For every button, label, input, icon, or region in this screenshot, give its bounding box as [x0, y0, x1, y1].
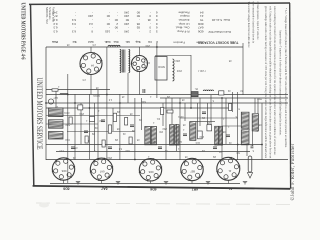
svg-text:240: 240: [124, 22, 129, 26]
svg-text:AVC: AVC: [195, 141, 200, 144]
resistor R5: [207, 125, 212, 131]
schematic border frame right: [289, 3, 292, 189]
wire row left mid B: [46, 123, 98, 125]
wire vertical left rail: [45, 47, 47, 160]
wire vertical 35: [257, 98, 259, 114]
svg-text:6B7: 6B7: [192, 187, 198, 191]
wire vertical 28: [176, 124, 178, 151]
svg-text:6.3: 6.3: [53, 29, 57, 33]
svg-text:1M: 1M: [139, 118, 142, 120]
svg-text:-: -: [150, 10, 151, 14]
i-f transformer IFT3 secondary: [219, 126, 223, 145]
svg-text:05-: 05-: [194, 87, 198, 89]
svg-text:50M: 50M: [99, 119, 104, 121]
capacitor C7: [142, 89, 144, 93]
i-f transformer IFT2 primary: [170, 125, 174, 145]
svg-text:2M: 2M: [92, 132, 95, 134]
capacitor C3: [101, 119, 105, 121]
svg-text:50M: 50M: [125, 149, 130, 151]
tube socket V3 r-f amplifier 6D6: [52, 157, 75, 180]
resistor R10: [229, 104, 232, 111]
wire vertical 25: [261, 103, 263, 160]
tube V2 oscillator: [131, 55, 148, 72]
svg-text:-: -: [109, 18, 110, 22]
svg-text:6D6: 6D6: [198, 22, 204, 26]
wire vertical 1: [55, 89, 57, 108]
wire cathode stub tube 6: [191, 180, 193, 183]
svg-text:6.3: 6.3: [53, 26, 57, 30]
wire vertical 33: [246, 145, 248, 157]
svg-text:6D6: 6D6: [150, 187, 156, 191]
svg-text:normal operation. Input 6.3 vo: normal operation. Input 6.3 volts d-c.: [256, 2, 259, 41]
svg-text:456K: 456K: [149, 140, 155, 142]
svg-text:6D6: 6D6: [198, 29, 204, 33]
condenser block C20: [191, 92, 198, 97]
ground symbol 1: [76, 182, 80, 184]
svg-text:-: -: [109, 26, 110, 30]
schematic border frame left: [31, 4, 34, 186]
wire top bus: [46, 46, 243, 48]
schematic border frame top: [29, 3, 290, 4]
i-f transformer IFT1 secondary: [151, 127, 156, 145]
svg-text:1500: 1500: [176, 69, 182, 71]
wire heater bus: [46, 144, 262, 146]
svg-text:350*: 350*: [257, 97, 262, 99]
wire vertical 29: [184, 103, 186, 121]
svg-text:©John F. Rider, Publisher: ©John F. Rider, Publisher: [290, 143, 296, 200]
wire vertical 17: [179, 98, 181, 160]
svg-text:84: 84: [200, 10, 204, 14]
wire vertical 18: [190, 55, 192, 108]
svg-text:240: 240: [124, 10, 129, 14]
svg-text:6A7: 6A7: [198, 26, 204, 30]
wire stub V1 top: [90, 47, 92, 53]
svg-text:90: 90: [106, 14, 110, 18]
svg-text:240: 240: [52, 10, 57, 14]
capacitor C11: [158, 146, 162, 148]
svg-text:-: -: [92, 26, 93, 30]
svg-text:-: -: [75, 10, 76, 14]
svg-text:-: -: [92, 18, 93, 22]
svg-text:6A7: 6A7: [101, 186, 107, 190]
svg-text:Plate: Plate: [51, 40, 58, 43]
svg-text:6.3: 6.3: [53, 18, 57, 22]
wire row bus2: [160, 97, 288, 99]
svg-text:90: 90: [106, 22, 110, 26]
svg-text:Osc.: Osc.: [113, 40, 119, 43]
wire row right mid D: [180, 117, 238, 119]
wire vertical 3: [74, 94, 76, 160]
resistor R8: [125, 118, 128, 126]
svg-text:80: 80: [136, 14, 140, 18]
svg-text:6D6: 6D6: [63, 186, 69, 190]
wire vertical 16: [171, 98, 173, 124]
wire row screen: [46, 102, 288, 104]
wire vertical 24: [254, 98, 256, 113]
ground symbol 2: [116, 182, 120, 184]
svg-text:-: -: [75, 26, 76, 30]
svg-text:2M: 2M: [213, 155, 216, 157]
wire row left mid A: [46, 115, 140, 117]
svg-text:AVC: AVC: [177, 140, 182, 143]
svg-text:MODEL 502: MODEL 502: [45, 7, 49, 24]
svg-text:-: -: [109, 10, 110, 14]
capacitor C4: [130, 124, 134, 126]
wire vertical 11: [127, 73, 129, 103]
svg-text:6D6: 6D6: [61, 169, 66, 173]
speaker field box: [155, 57, 167, 81]
svg-text:given readings taken with a me: given readings taken with a meter having…: [264, 6, 267, 159]
svg-text:OSC: OSC: [65, 138, 70, 140]
svg-text:Sup.: Sup.: [135, 40, 141, 43]
output choke L6: [241, 130, 249, 145]
capacitor C2: [84, 130, 88, 132]
svg-text:1M: 1M: [117, 110, 120, 112]
tube socket V6 2nd detector 6B7: [180, 158, 203, 181]
capacitor C10: [108, 146, 112, 148]
svg-text:SPKR: SPKR: [158, 65, 165, 68]
svg-text:The socket voltages listed in: The socket voltages listed in the table …: [247, 2, 250, 49]
svg-text:80: 80: [136, 10, 140, 14]
svg-text:165: 165: [105, 29, 110, 33]
wire vertical 10: [119, 94, 121, 160]
svg-text:50M: 50M: [65, 123, 70, 125]
wire cathode stub tube 4: [101, 180, 103, 183]
wire stub V1 bottom: [90, 75, 92, 95]
wire vertical 19: [197, 103, 199, 131]
wire vertical 20: [210, 95, 212, 126]
i-f transformer IFT1 primary: [145, 127, 151, 145]
svg-text:-: -: [92, 10, 93, 14]
svg-text:-: -: [128, 26, 129, 30]
svg-text:TUBE SOCKET VOLTAGES: TUBE SOCKET VOLTAGES: [198, 41, 239, 45]
svg-text:85: 85: [136, 26, 140, 30]
svg-text:Date: 5-11-36: Date: 5-11-36: [212, 18, 230, 22]
svg-text:25M: 25M: [107, 156, 112, 158]
svg-text:* A.C. Voltage measured from p: * A.C. Voltage measured from plate to pl…: [284, 8, 287, 148]
capacitor C1: [251, 145, 254, 147]
svg-text:41: 41: [229, 187, 233, 191]
svg-text:20M: 20M: [175, 59, 180, 61]
tube V1 rectifier 84: [80, 52, 103, 75]
svg-text:-: -: [117, 29, 118, 33]
wire vertical 26: [242, 43, 244, 95]
oscillator coil L3: [49, 132, 64, 140]
svg-text:V.: V.: [156, 40, 158, 43]
wire vertical 2: [67, 74, 69, 183]
wire row choke link: [222, 125, 241, 127]
svg-text:2M: 2M: [207, 121, 210, 123]
svg-text:6.3V: 6.3V: [59, 149, 64, 151]
wire cathode stub tube 5: [150, 180, 152, 183]
svg-text:-: -: [139, 29, 140, 33]
resistor R7: [78, 105, 83, 110]
svg-text:0.3: 0.3: [72, 22, 76, 26]
tube socket V4 oscillator-modulator 6A7: [90, 158, 113, 181]
antenna coil L1: [49, 108, 64, 117]
wire vertical 6: [94, 103, 96, 151]
svg-text:volt. Using this scale on such: volt. Using this scale on such the large…: [268, 6, 271, 158]
wire vertical 12: [134, 98, 136, 160]
ground symbol 5: [243, 182, 247, 184]
svg-text:3.2: 3.2: [89, 22, 93, 26]
svg-text:Scr.: Scr.: [72, 40, 77, 43]
wire row i-f link: [196, 121, 215, 123]
wire vertical 9: [112, 108, 114, 131]
power transformer T1 secondary winding: [129, 50, 130, 73]
svg-text:6D6: 6D6: [148, 170, 153, 174]
svg-text:240: 240: [124, 14, 129, 18]
svg-text:Rectifier: Rectifier: [178, 10, 189, 14]
svg-text:41: 41: [200, 14, 204, 18]
wire vertical 21: [221, 98, 223, 160]
wire cathode stub tube 3: [63, 180, 65, 183]
schematic border frame bottom: [33, 186, 291, 189]
filter choke L7: [252, 114, 258, 132]
svg-text:.0001: .0001: [178, 115, 184, 117]
resistor R13: [69, 117, 72, 124]
tube socket V5 i-f amplifier 6D6: [139, 158, 162, 181]
wire row mid C: [67, 131, 134, 133]
svg-text:FIELD: FIELD: [143, 61, 150, 63]
svg-text:Htr.: Htr.: [125, 40, 129, 43]
svg-text:90: 90: [114, 18, 118, 22]
svg-text:ANT: ANT: [53, 96, 58, 99]
svg-text:Function: Function: [173, 40, 185, 44]
power transformer T1 primary winding: [120, 50, 121, 73]
wire vertical 4: [80, 103, 82, 144]
wire vertical 27: [165, 98, 167, 160]
resistor R3: [108, 125, 111, 133]
wire bottom bus: [46, 159, 288, 161]
svg-text:UNITED MOTORS SERVICE: UNITED MOTORS SERVICE: [35, 78, 44, 150]
svg-text:6B7: 6B7: [190, 170, 195, 174]
ground symbol 4: [206, 182, 210, 184]
resistor R4: [198, 131, 203, 139]
i-f transformer IFT3 primary: [215, 126, 219, 145]
svg-text:Fil.: Fil.: [148, 40, 152, 43]
svg-text:1M: 1M: [202, 149, 205, 151]
svg-text:25M: 25M: [199, 135, 204, 137]
wire vertical 23: [237, 92, 239, 160]
resistor R2: [113, 113, 116, 121]
svg-text:3M: 3M: [132, 129, 135, 131]
resistor R15: [102, 140, 105, 147]
resistor R11: [167, 110, 173, 113]
svg-text:.0001: .0001: [64, 111, 70, 113]
svg-text:240: 240: [88, 14, 93, 18]
capacitor C6: [226, 134, 230, 136]
wire vertical 15: [162, 103, 164, 126]
svg-text:6A7: 6A7: [99, 170, 104, 174]
wire vertical 14: [156, 43, 158, 98]
wire row under table: [46, 89, 110, 91]
power transformer T1 core: [121, 50, 123, 73]
svg-text:UNITED MOTORS PAGE 4-6: UNITED MOTORS PAGE 4-6: [20, 3, 26, 60]
svg-text:95: 95: [136, 22, 140, 26]
wire bottom return: [50, 183, 240, 185]
svg-text:Grid: Grid: [88, 40, 94, 43]
coupling coil L4: [190, 122, 196, 141]
svg-text:were measured to chassis with: were measured to chassis with the set in: [252, 2, 255, 44]
svg-text:240: 240: [124, 29, 129, 33]
svg-text:-: -: [117, 14, 118, 18]
resistor R1: [52, 89, 58, 91]
svg-text:87: 87: [54, 14, 58, 18]
svg-text:Y 240 J: Y 240 J: [198, 69, 206, 71]
wire stub V2 top: [139, 47, 141, 56]
filter coil L10: [203, 90, 213, 91]
wire row B+: [46, 94, 288, 96]
svg-text:-: -: [117, 10, 118, 14]
wire vertical 22: [232, 92, 234, 112]
wire row grid: [46, 107, 230, 109]
svg-text:6.3: 6.3: [53, 22, 57, 26]
wire stub V2 bottom: [139, 72, 141, 95]
wire vertical 7: [97, 90, 99, 160]
wire vertical 5: [89, 94, 91, 159]
svg-text:2nd Det.: 2nd Det.: [178, 18, 190, 22]
svg-text:75: 75: [200, 18, 204, 22]
svg-text:-: -: [139, 18, 140, 22]
resistor R16: [129, 137, 132, 144]
wire cathode stub tube 7: [227, 180, 229, 183]
svg-text:GANG: GANG: [93, 94, 100, 97]
component value labels: [53, 43, 262, 158]
wire vertical 34: [252, 131, 254, 146]
table data columns: [51, 10, 158, 43]
dial lamp: [48, 99, 53, 104]
svg-text:Ampere drain--7 amperes at 6 v: Ampere drain--7 amperes at 6 volts with …: [279, 30, 282, 136]
svg-text:80: 80: [125, 18, 129, 22]
svg-text:25M: 25M: [145, 44, 150, 46]
wire speaker feed: [155, 55, 191, 57]
wire vertical 13: [141, 98, 143, 130]
svg-text:25M: 25M: [79, 112, 84, 114]
wire vertical 31: [207, 103, 209, 131]
svg-text:I-F Amp.: I-F Amp.: [178, 22, 190, 26]
ground symbol 3: [164, 182, 168, 184]
fuse F1 cigar body: [248, 156, 252, 172]
svg-text:when checking the circuits fro: when checking the circuits from the sock…: [273, 6, 276, 156]
tube socket V7 output 41: [216, 157, 240, 181]
svg-text:25M: 25M: [162, 127, 167, 129]
capacitor C9: [71, 146, 75, 148]
svg-text:Delco Model 502: Delco Model 502: [208, 30, 231, 34]
svg-text:90: 90: [114, 26, 118, 30]
svg-text:45: 45: [147, 18, 151, 22]
svg-text:2M: 2M: [202, 116, 205, 118]
i-f transformer IFT2 secondary: [175, 125, 179, 145]
capacitor C8: [202, 111, 206, 113]
svg-text:Osc.-Mod.: Osc.-Mod.: [175, 26, 189, 30]
output choke L5: [241, 112, 249, 128]
vibrator arrow: [247, 173, 252, 178]
wire vertical 32: [225, 98, 227, 144]
speaker voice coil choke: [173, 59, 175, 81]
svg-text:Cath.: Cath.: [104, 40, 111, 43]
capacitor C5: [183, 133, 187, 135]
small coil L9: [60, 94, 68, 95]
resistor R14: [85, 136, 88, 143]
resistor R9: [161, 108, 164, 115]
r-f coil L2: [49, 120, 64, 128]
svg-text:R-F Amp.: R-F Amp.: [176, 29, 189, 33]
capacitor C12: [213, 146, 217, 148]
svg-text:2M: 2M: [115, 138, 118, 140]
svg-text:50M: 50M: [141, 100, 146, 102]
page bottom edge line: [36, 203, 295, 205]
antenna input coil L8: [108, 45, 120, 46]
svg-text:-: -: [75, 14, 76, 18]
resistor R12: [219, 91, 224, 95]
svg-text:6.3: 6.3: [72, 18, 76, 22]
wire vertical 8: [106, 47, 108, 160]
svg-text:2M: 2M: [167, 95, 170, 97]
svg-text:-: -: [150, 22, 151, 26]
svg-text:6.3: 6.3: [72, 29, 76, 33]
resistor R6: [90, 117, 95, 122]
svg-text:Output: Output: [180, 14, 189, 18]
wire vertical 30: [199, 98, 201, 126]
wire row mid: [56, 151, 250, 153]
